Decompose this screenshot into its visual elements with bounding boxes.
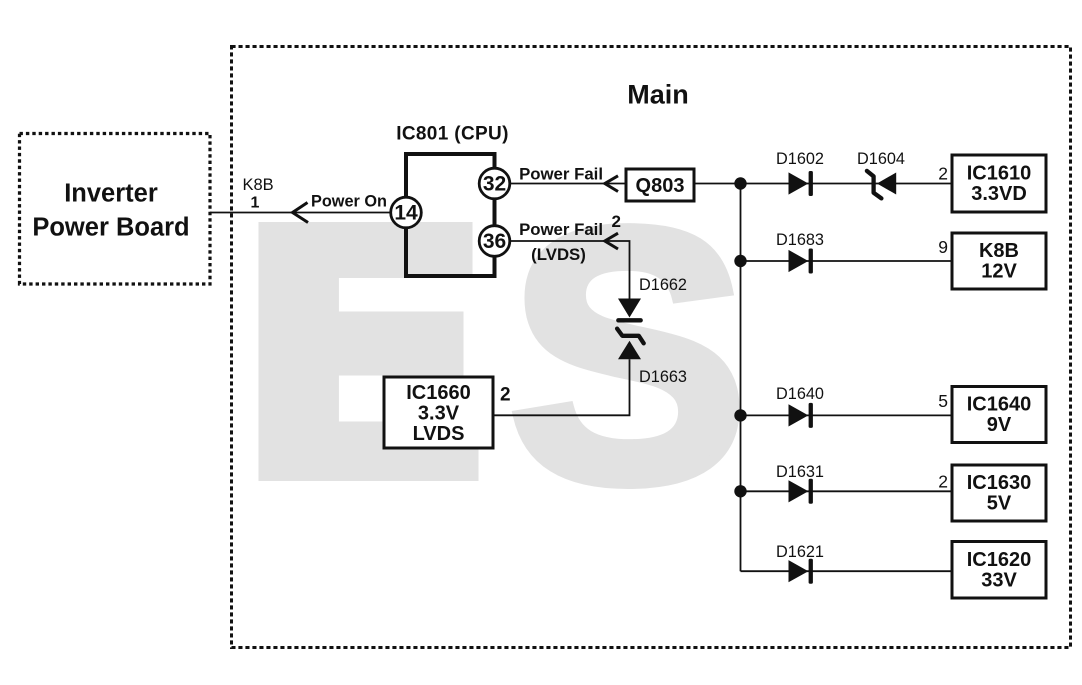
pin 32 of IC801 [479, 168, 510, 199]
svg-text:3.3VD: 3.3VD [971, 183, 1027, 205]
svg-text:Power Fail: Power Fail [519, 220, 603, 239]
svg-text:36: 36 [483, 230, 506, 253]
watermark letter E [259, 222, 479, 481]
IC801 CPU box [406, 154, 495, 276]
svg-text:IC1640: IC1640 [967, 394, 1032, 416]
svg-text:(LVDS): (LVDS) [531, 245, 586, 264]
svg-text:IC1660: IC1660 [406, 382, 471, 404]
svg-text:Power Board: Power Board [32, 214, 189, 242]
svg-text:IC1630: IC1630 [967, 472, 1032, 494]
wire vertical supply bus [740, 184, 742, 572]
svg-text:Q803: Q803 [636, 175, 685, 197]
block IC1660 3.3V LVDS [384, 377, 493, 448]
svg-text:3.3V: 3.3V [418, 403, 460, 425]
label Power Fail (LVDS) [519, 220, 603, 264]
svg-text:9: 9 [938, 237, 948, 257]
pin 36 of IC801 [479, 226, 510, 257]
arrowhead Power Fail LVDS (pointing left) [605, 233, 618, 249]
svg-text:33V: 33V [981, 570, 1017, 592]
junction row 4 [734, 485, 746, 497]
svg-text:14: 14 [394, 202, 418, 225]
Inverter Power Board block [20, 134, 211, 285]
wire bus to IC1640 (row 3) [741, 414, 953, 416]
wire bus to K8B 12V (row 2) [741, 260, 953, 262]
wire Q803 to IC1610 (row 1) [694, 183, 952, 185]
svg-text:D1683: D1683 [776, 231, 824, 249]
svg-text:Power Fail: Power Fail [519, 165, 603, 184]
block IC1610 3.3VD [952, 155, 1046, 212]
svg-text:1: 1 [251, 195, 260, 212]
block IC1620 33V [952, 542, 1046, 599]
diode D1621 [789, 559, 813, 584]
svg-text:2: 2 [938, 164, 948, 184]
pin 14 of IC801 [391, 197, 422, 228]
block IC1630 5V [952, 465, 1046, 521]
svg-text:Inverter: Inverter [64, 180, 158, 208]
svg-text:Main: Main [627, 80, 689, 110]
svg-text:2: 2 [938, 472, 948, 492]
junction row 1 [734, 177, 746, 189]
diode D1640 [789, 403, 813, 428]
svg-text:IC1610: IC1610 [967, 163, 1032, 185]
svg-text:2: 2 [500, 385, 511, 406]
svg-text:IC1620: IC1620 [967, 549, 1032, 571]
svg-text:D1662: D1662 [639, 276, 687, 294]
wire bus to IC1630 (row 4) [741, 490, 953, 492]
svg-text:12V: 12V [981, 261, 1017, 283]
diode D1683 [789, 249, 813, 274]
wire Power Fail net: IC801 pin 32 to Q803 [510, 183, 626, 185]
wire bus to IC1620 (row 5) [741, 570, 953, 572]
diode D1662 [618, 299, 641, 321]
svg-text:32: 32 [483, 173, 506, 196]
wire Power On net: Inverter board to IC801 pin 14 [210, 212, 391, 214]
block IC1640 9V [952, 387, 1046, 443]
svg-text:9V: 9V [987, 414, 1012, 436]
diode D1602 [789, 171, 813, 196]
junction row 3 [734, 409, 746, 421]
svg-text:D1621: D1621 [776, 543, 824, 561]
svg-text:D1640: D1640 [776, 385, 824, 403]
svg-text:2: 2 [612, 212, 621, 231]
svg-text:D1663: D1663 [639, 368, 687, 386]
diode D1631 [789, 479, 813, 504]
svg-text:D1602: D1602 [776, 150, 824, 168]
wire zener stack to IC1660 pin 2 [493, 359, 630, 415]
svg-text:K8B: K8B [979, 240, 1019, 262]
transistor Q803 block [626, 169, 694, 201]
zener diode D1604 [867, 171, 896, 199]
svg-text:K8B: K8B [243, 176, 274, 194]
arrowhead Power On (pointing left) [293, 203, 309, 223]
svg-text:IC801 (CPU): IC801 (CPU) [396, 124, 509, 145]
svg-text:5V: 5V [987, 493, 1012, 515]
svg-text:D1631: D1631 [776, 463, 824, 481]
wire Power Fail (LVDS) net: IC801 pin 36 to zener stack [510, 241, 630, 299]
Main board dashed border [232, 47, 1071, 648]
junction row 2 [734, 255, 746, 267]
svg-text:Power On: Power On [311, 193, 387, 211]
svg-text:LVDS: LVDS [413, 423, 465, 445]
zener diode D1663 [617, 329, 644, 360]
svg-text:5: 5 [938, 391, 948, 411]
block K8B 12V [952, 233, 1046, 289]
arrowhead Power Fail (pointing left) [605, 176, 618, 192]
svg-text:D1604: D1604 [857, 150, 905, 168]
